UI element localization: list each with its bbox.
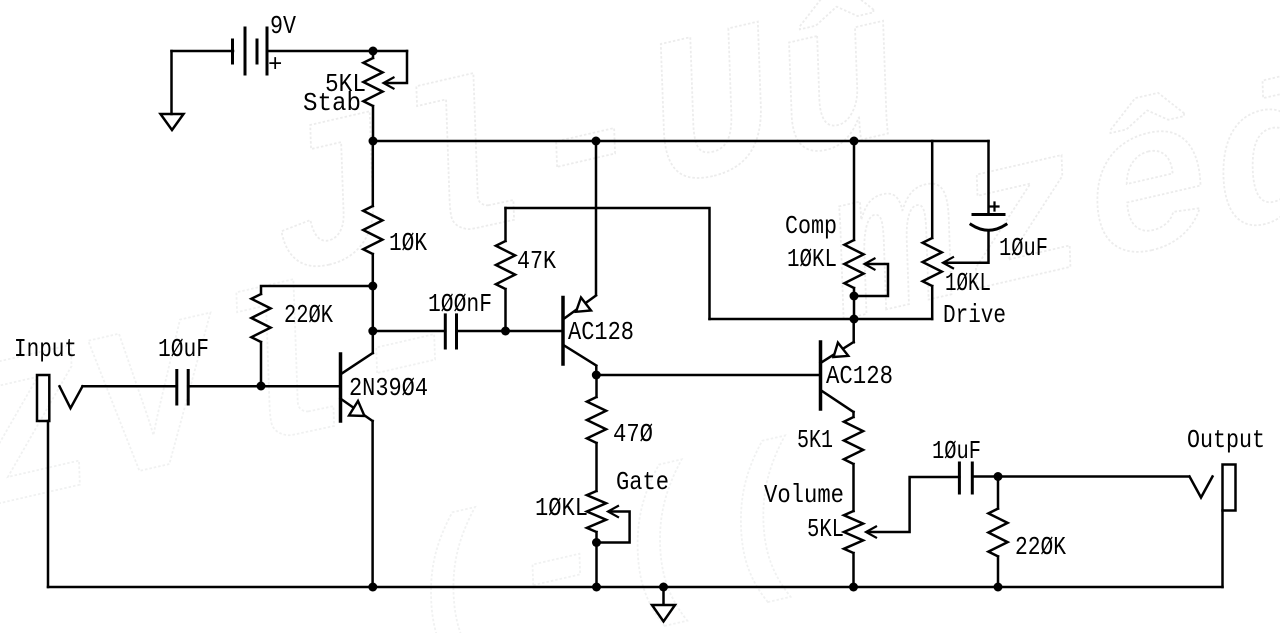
- transistor Q3 AC128 (PNP): [852, 319, 855, 342]
- wire battery left lead: [172, 50, 234, 53]
- ground (bottom) stub: [662, 587, 665, 605]
- svg-text:Output: Output: [1187, 425, 1265, 455]
- node rail comp: [850, 137, 859, 146]
- resistor R5 470: [587, 375, 606, 443]
- svg-text:9V: 9V: [270, 11, 296, 41]
- node rail volume: [849, 583, 858, 592]
- svg-text:Drive: Drive: [943, 300, 1006, 330]
- svg-text:Volume: Volume: [764, 480, 844, 510]
- node comp wiper: [850, 292, 859, 301]
- svg-text:+: +: [268, 52, 282, 79]
- wire rail to cap C4: [987, 141, 990, 214]
- svg-text:1ØuF: 1ØuF: [932, 436, 981, 466]
- wire bottom ground rail: [48, 586, 1223, 589]
- capacitor C3 100nF: [444, 315, 447, 348]
- node rail 220K out: [994, 583, 1003, 592]
- wire gate wiper return: [597, 512, 630, 543]
- wire battery to node: [267, 50, 407, 53]
- output jack J2 body: [1223, 465, 1236, 511]
- resistor R4 5K1: [844, 412, 863, 511]
- potentiometer RP4 10KL Gate: [587, 443, 606, 587]
- svg-text:1ØKL: 1ØKL: [787, 244, 837, 274]
- node rail ground: [659, 583, 668, 592]
- ground (top-left): [161, 114, 184, 130]
- node battery/wiper: [369, 47, 378, 56]
- svg-text:47K: 47K: [517, 246, 556, 276]
- svg-text:AC128: AC128: [826, 361, 893, 391]
- node rail Q2: [592, 137, 601, 146]
- svg-text:2N39Ø4: 2N39Ø4: [349, 373, 428, 403]
- resistor R1 220K: [251, 286, 372, 386]
- capacitor C4 10uF (electrolytic, + top): [973, 213, 1004, 216]
- svg-text:1ØK: 1ØK: [389, 228, 427, 258]
- node gate bottom: [592, 538, 601, 547]
- svg-text:Gate: Gate: [616, 467, 669, 497]
- wire stab wiper: [386, 51, 408, 83]
- svg-text:1ØKL: 1ØKL: [535, 493, 588, 523]
- wire input to cap C1: [83, 385, 177, 388]
- svg-text:1ØØnF: 1ØØnF: [428, 289, 492, 319]
- node 220K bottom: [257, 382, 266, 391]
- wire comp wiper return: [854, 264, 888, 296]
- input jack J1 body: [37, 375, 49, 421]
- svg-text:47Ø: 47Ø: [613, 419, 653, 449]
- svg-text:Input: Input: [14, 334, 77, 364]
- node emitter Q3: [850, 315, 859, 324]
- resistor R2 10K: [363, 141, 382, 331]
- svg-text:Comp: Comp: [785, 211, 837, 241]
- resistor R3 47K: [496, 208, 515, 331]
- wire cap C4 to drive wiper: [945, 231, 989, 263]
- node rail left: [369, 137, 378, 146]
- svg-text:1ØuF: 1ØuF: [158, 334, 209, 364]
- potentiometer RP2 10KL Comp: [844, 141, 863, 319]
- svg-text:1ØKL: 1ØKL: [945, 268, 991, 298]
- svg-text:Stab: Stab: [303, 88, 361, 118]
- wire bias link y319: [710, 318, 933, 321]
- capacitor C1 10uF input: [175, 371, 178, 405]
- potentiometer RP5 5KL Volume: [844, 511, 863, 587]
- svg-text:5KL: 5KL: [807, 514, 844, 544]
- node 220K top: [368, 282, 377, 291]
- potentiometer RP1 5KL Stab: [363, 51, 382, 141]
- wire ground stub top-left: [170, 51, 173, 114]
- wire top rail: [373, 140, 989, 143]
- svg-text:5K1: 5K1: [797, 425, 833, 455]
- wire cap C1 to base Q1: [188, 385, 340, 388]
- svg-text:1ØuF: 1ØuF: [999, 233, 1048, 263]
- ground (bottom): [652, 605, 675, 622]
- wire volume wiper to cap C5: [868, 477, 959, 532]
- node rail Q1 emitter: [368, 583, 377, 592]
- node collector Q2: [592, 371, 601, 380]
- wire input jack down to rail: [47, 421, 50, 587]
- potentiometer RP3 10KL Drive: [923, 141, 942, 319]
- wire cap C5 to output jack: [972, 475, 1189, 478]
- node output cap: [994, 472, 1003, 481]
- battery B1 9V: [233, 28, 268, 74]
- capacitor C5 10uF output: [958, 463, 961, 493]
- input jack tip contact: [60, 386, 83, 408]
- node 47K bottom: [501, 327, 510, 336]
- output jack tip contact: [1190, 477, 1213, 498]
- node collector Q1: [368, 327, 377, 336]
- svg-text:AC128: AC128: [568, 317, 634, 347]
- transistor Q2 AC128 (PNP): [595, 141, 598, 295]
- svg-text:22ØK: 22ØK: [1015, 532, 1066, 562]
- transistor Q1 2N3904 (NPN): [372, 331, 375, 353]
- resistor R6 220K output: [988, 477, 1007, 588]
- svg-text:22ØK: 22ØK: [284, 300, 333, 330]
- wire 47K top link: [506, 208, 710, 319]
- node rail gate: [592, 583, 601, 592]
- wire 100nF left: [373, 330, 446, 333]
- wire output jack to ground rail: [1221, 511, 1224, 588]
